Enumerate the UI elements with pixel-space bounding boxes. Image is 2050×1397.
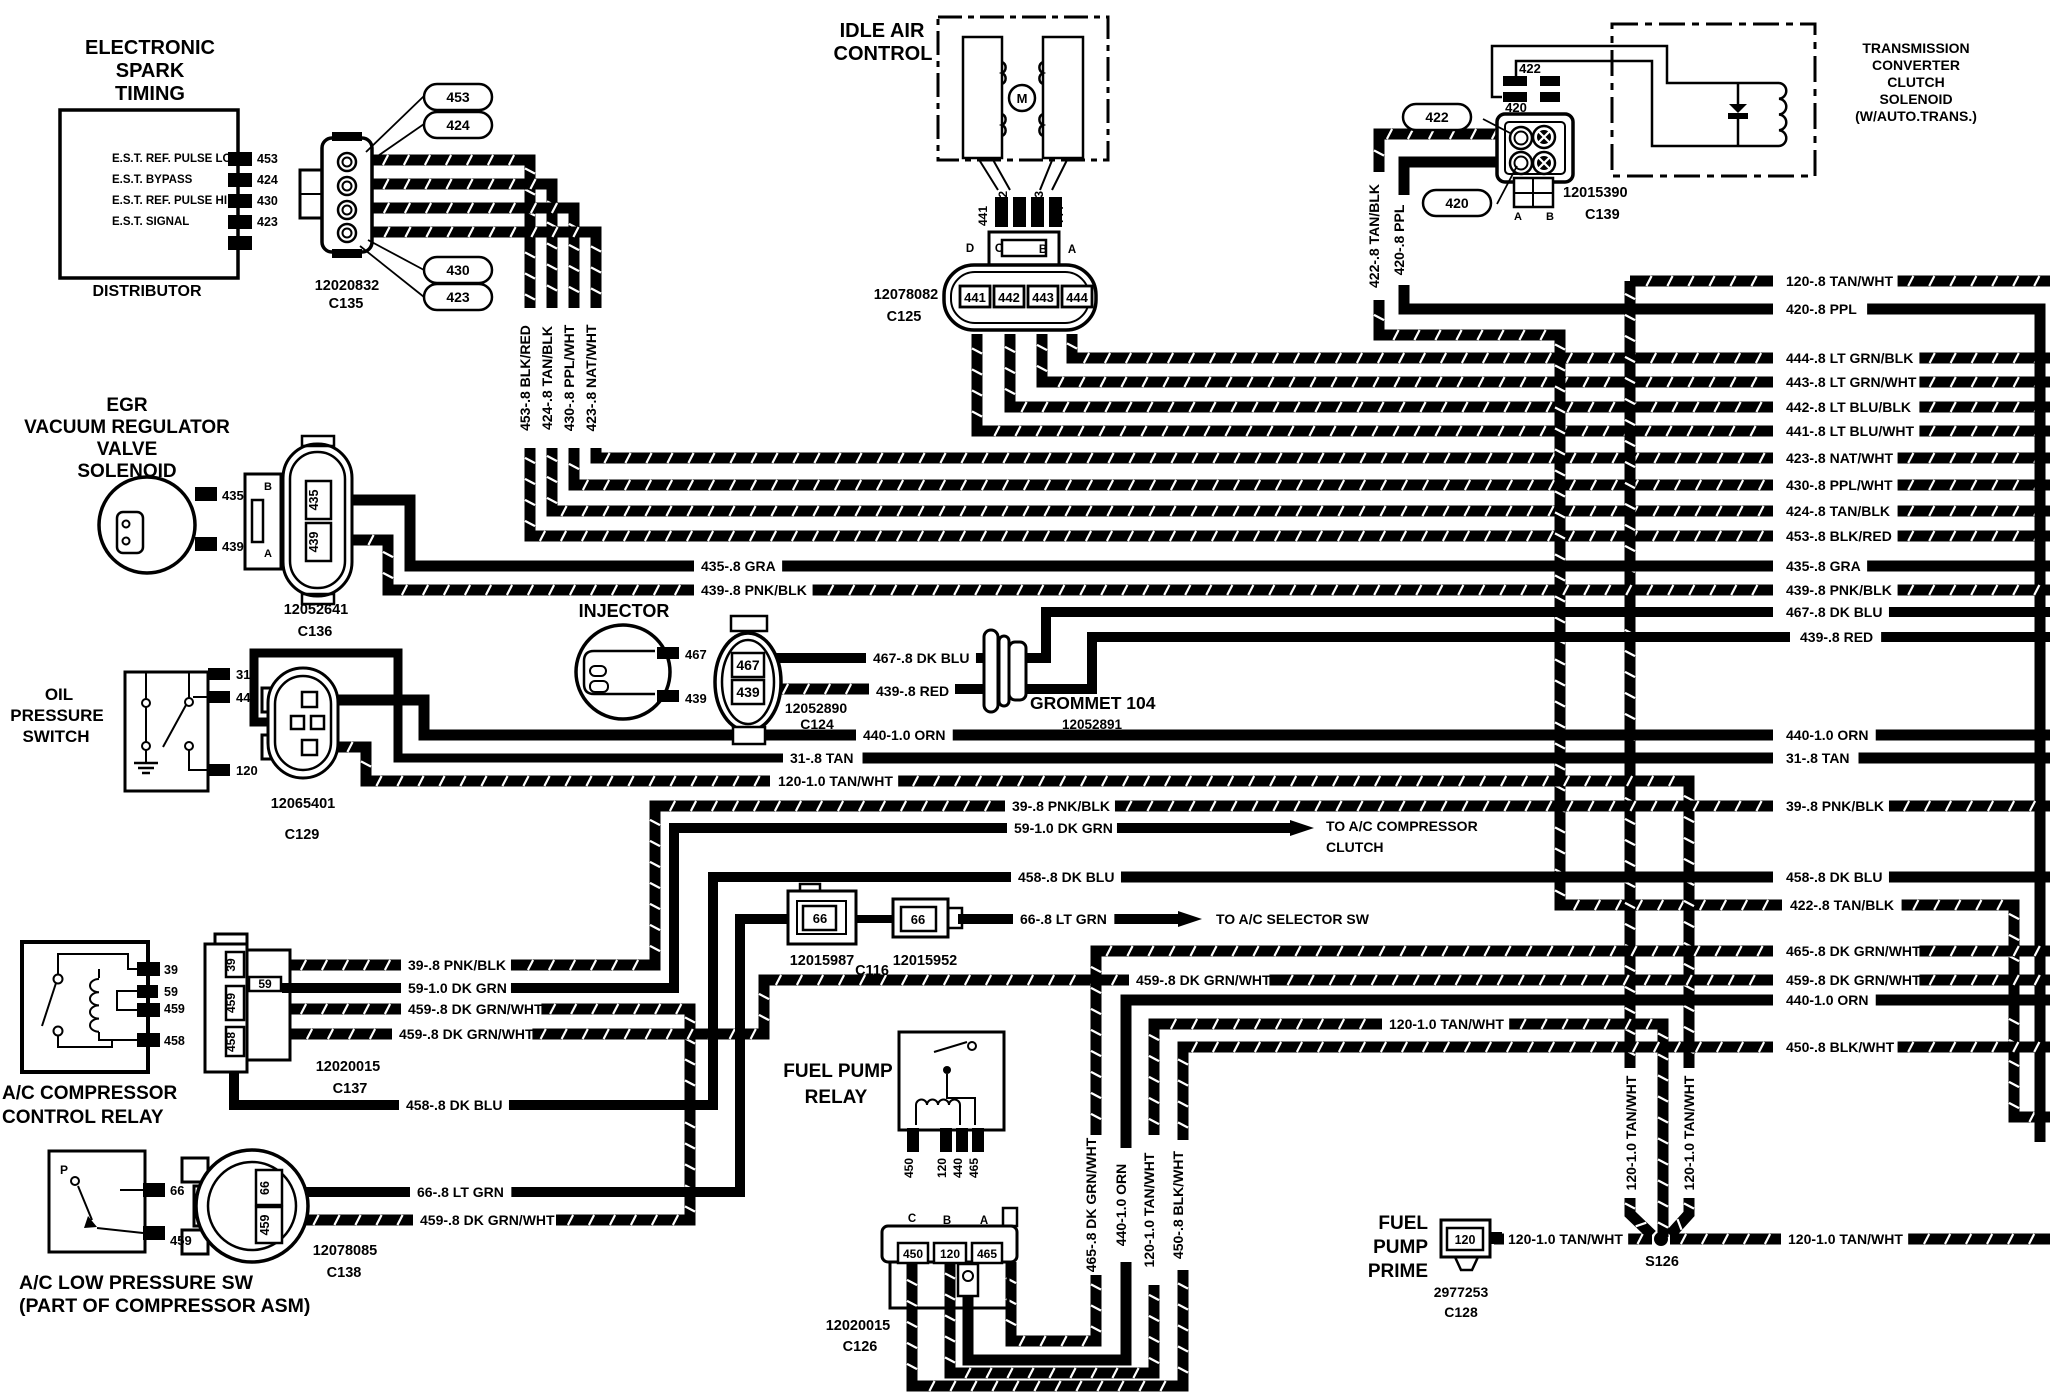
svg-text:440: 440 [236,690,258,705]
svg-text:SOLENOID: SOLENOID [1879,91,1952,107]
svg-text:CLUTCH: CLUTCH [1326,839,1384,855]
svg-text:423: 423 [257,215,278,229]
svg-text:B: B [264,481,272,493]
svg-text:453: 453 [257,152,278,166]
svg-text:39: 39 [224,958,238,972]
svg-text:12015390: 12015390 [1563,185,1628,201]
svg-text:422: 422 [1519,61,1541,76]
svg-text:439: 439 [222,539,244,554]
svg-text:423-.8 NAT/WHT: 423-.8 NAT/WHT [1786,450,1894,466]
svg-text:444: 444 [1066,290,1088,305]
svg-text:465: 465 [977,1247,997,1261]
svg-text:66: 66 [170,1183,184,1198]
svg-text:CLUTCH: CLUTCH [1887,74,1945,90]
svg-text:IDLE AIR: IDLE AIR [840,20,925,42]
svg-text:C124: C124 [800,716,834,732]
svg-text:FUEL: FUEL [1378,1213,1428,1234]
svg-text:12020832: 12020832 [315,278,380,294]
svg-text:440-1.0 ORN: 440-1.0 ORN [863,727,945,743]
svg-text:66: 66 [258,1181,272,1195]
svg-text:424-.8 TAN/BLK: 424-.8 TAN/BLK [1786,503,1890,519]
svg-text:C: C [908,1213,916,1225]
svg-text:TIMING: TIMING [115,83,185,105]
svg-text:RELAY: RELAY [805,1087,868,1108]
svg-text:12052890: 12052890 [785,700,848,716]
svg-text:A/C LOW PRESSURE SW: A/C LOW PRESSURE SW [19,1272,254,1294]
svg-text:120-.8 TAN/WHT: 120-.8 TAN/WHT [1786,273,1894,289]
svg-text:(PART OF COMPRESSOR ASM): (PART OF COMPRESSOR ASM) [19,1295,310,1317]
svg-text:C126: C126 [843,1339,878,1355]
svg-text:B: B [943,1215,951,1227]
svg-text:450: 450 [903,1247,923,1261]
svg-text:C138: C138 [327,1265,362,1281]
svg-text:PRIME: PRIME [1368,1261,1428,1282]
svg-text:12052891: 12052891 [1062,717,1123,732]
svg-text:120-1.0 TAN/WHT: 120-1.0 TAN/WHT [1788,1231,1903,1247]
svg-text:467-.8 DK BLU: 467-.8 DK BLU [1786,604,1882,620]
svg-text:39-.8 PNK/BLK: 39-.8 PNK/BLK [408,957,506,973]
svg-text:459-.8 DK GRN/WHT: 459-.8 DK GRN/WHT [420,1212,555,1228]
svg-text:A/C COMPRESSOR: A/C COMPRESSOR [2,1083,178,1104]
svg-text:B: B [1546,211,1554,223]
svg-text:420: 420 [1445,195,1469,211]
svg-text:OIL: OIL [45,685,73,704]
svg-text:443-.8 LT GRN/WHT: 443-.8 LT GRN/WHT [1786,374,1917,390]
svg-text:39-.8 PNK/BLK: 39-.8 PNK/BLK [1012,798,1110,814]
svg-text:458: 458 [224,1032,238,1052]
svg-text:459-.8 DK GRN/WHT: 459-.8 DK GRN/WHT [1136,972,1271,988]
svg-text:458: 458 [164,1034,185,1048]
svg-text:120-1.0 TAN/WHT: 120-1.0 TAN/WHT [1141,1152,1157,1267]
svg-text:450-.8 BLK/WHT: 450-.8 BLK/WHT [1786,1039,1895,1055]
svg-text:441-.8 LT BLU/WHT: 441-.8 LT BLU/WHT [1786,423,1915,439]
svg-text:459-.8 DK GRN/WHT: 459-.8 DK GRN/WHT [1786,972,1921,988]
svg-text:C136: C136 [298,624,333,640]
svg-text:450: 450 [902,1158,916,1178]
svg-text:120: 120 [236,763,258,778]
svg-text:PUMP: PUMP [1373,1237,1428,1258]
svg-text:465: 465 [967,1158,981,1178]
svg-text:A: A [1514,211,1522,223]
svg-text:443: 443 [1032,290,1054,305]
svg-text:453-.8 BLK/RED: 453-.8 BLK/RED [517,325,533,431]
svg-text:422-.8 TAN/BLK: 422-.8 TAN/BLK [1790,897,1894,913]
svg-text:D: D [966,243,974,255]
svg-text:453-.8 BLK/RED: 453-.8 BLK/RED [1786,528,1892,544]
svg-text:444: 444 [1052,206,1066,226]
svg-text:A: A [264,548,272,560]
svg-text:439: 439 [685,691,707,706]
svg-text:441: 441 [976,206,990,226]
svg-text:12015987: 12015987 [790,953,855,969]
svg-text:EGR: EGR [106,395,147,416]
svg-text:120-1.0 TAN/WHT: 120-1.0 TAN/WHT [1623,1075,1639,1190]
svg-text:31-.8 TAN: 31-.8 TAN [790,750,854,766]
svg-text:31: 31 [236,667,250,682]
svg-text:39-.8 PNK/BLK: 39-.8 PNK/BLK [1786,798,1884,814]
svg-text:DISTRIBUTOR: DISTRIBUTOR [92,283,201,300]
svg-text:439-.8 RED: 439-.8 RED [1800,629,1873,645]
svg-text:439-.8 PNK/BLK: 439-.8 PNK/BLK [1786,582,1892,598]
svg-text:66: 66 [911,912,925,927]
svg-text:120-1.0 TAN/WHT: 120-1.0 TAN/WHT [1508,1231,1623,1247]
svg-text:(W/AUTO.TRANS.): (W/AUTO.TRANS.) [1855,108,1977,124]
svg-text:442: 442 [998,290,1020,305]
svg-text:459-.8 DK GRN/WHT: 459-.8 DK GRN/WHT [399,1026,534,1042]
svg-text:120: 120 [1455,1233,1476,1247]
svg-text:120: 120 [940,1247,960,1261]
svg-text:424: 424 [446,117,470,133]
svg-text:430-.8 PPL/WHT: 430-.8 PPL/WHT [561,324,577,431]
svg-text:442-.8 LT BLU/BLK: 442-.8 LT BLU/BLK [1786,399,1911,415]
svg-text:12065401: 12065401 [271,796,336,812]
svg-text:459: 459 [258,1215,272,1236]
svg-text:12078082: 12078082 [874,287,939,303]
svg-text:A: A [1068,244,1076,256]
svg-text:E.S.T. BYPASS: E.S.T. BYPASS [112,174,193,186]
svg-text:66: 66 [813,911,827,926]
svg-text:441: 441 [964,290,986,305]
svg-text:459: 459 [224,993,238,1013]
svg-text:435-.8 GRA: 435-.8 GRA [1786,558,1861,574]
svg-text:424-.8 TAN/BLK: 424-.8 TAN/BLK [539,326,555,430]
svg-text:C125: C125 [887,309,922,325]
svg-text:SWITCH: SWITCH [22,727,89,746]
svg-text:E.S.T. REF. PULSE HI: E.S.T. REF. PULSE HI [112,195,227,207]
svg-text:M: M [1017,91,1028,106]
svg-text:439: 439 [307,532,321,553]
svg-text:59-1.0 DK GRN: 59-1.0 DK GRN [408,980,507,996]
svg-text:458-.8 DK BLU: 458-.8 DK BLU [1018,869,1114,885]
svg-text:435: 435 [307,490,321,511]
svg-text:CONVERTER: CONVERTER [1872,57,1960,73]
svg-text:C: C [995,243,1003,255]
svg-text:PRESSURE: PRESSURE [10,706,104,725]
svg-text:467: 467 [736,657,760,673]
svg-text:C135: C135 [329,296,364,312]
svg-text:450-.8 BLK/WHT: 450-.8 BLK/WHT [1170,1150,1186,1259]
svg-text:444-.8 LT GRN/BLK: 444-.8 LT GRN/BLK [1786,350,1913,366]
svg-text:443: 443 [1032,191,1046,211]
svg-text:430-.8 PPL/WHT: 430-.8 PPL/WHT [1786,477,1893,493]
svg-text:465-.8 DK GRN/WHT: 465-.8 DK GRN/WHT [1786,943,1921,959]
svg-text:12020015: 12020015 [826,1318,891,1334]
svg-text:TO A/C SELECTOR SW: TO A/C SELECTOR SW [1216,911,1370,927]
svg-text:423: 423 [446,289,470,305]
svg-text:59-1.0 DK GRN: 59-1.0 DK GRN [1014,820,1113,836]
svg-text:B: B [1039,244,1047,256]
svg-text:12078085: 12078085 [313,1243,378,1259]
svg-text:420-.8 PPL: 420-.8 PPL [1786,301,1857,317]
svg-text:120-1.0 TAN/WHT: 120-1.0 TAN/WHT [778,773,893,789]
svg-text:420-.8 PPL: 420-.8 PPL [1391,204,1407,275]
svg-text:440-1.0 ORN: 440-1.0 ORN [1113,1164,1129,1246]
svg-text:CONTROL RELAY: CONTROL RELAY [2,1107,164,1128]
svg-text:422-.8 TAN/BLK: 422-.8 TAN/BLK [1366,184,1382,288]
svg-text:430: 430 [257,194,278,208]
svg-text:465-.8 DK GRN/WHT: 465-.8 DK GRN/WHT [1083,1137,1099,1272]
svg-text:C139: C139 [1585,207,1620,223]
svg-text:39: 39 [164,963,178,977]
svg-text:C129: C129 [285,827,320,843]
svg-text:12052641: 12052641 [284,602,349,618]
svg-text:453: 453 [446,89,470,105]
svg-text:423-.8 NAT/WHT: 423-.8 NAT/WHT [583,324,599,432]
svg-text:12015952: 12015952 [893,953,958,969]
svg-text:120: 120 [935,1158,949,1178]
svg-text:GROMMET 104: GROMMET 104 [1030,693,1156,713]
svg-text:422: 422 [1425,109,1449,125]
svg-text:ELECTRONIC: ELECTRONIC [85,37,215,59]
svg-text:458-.8 DK BLU: 458-.8 DK BLU [1786,869,1882,885]
svg-text:66-.8 LT GRN: 66-.8 LT GRN [1020,911,1107,927]
svg-text:INJECTOR: INJECTOR [579,601,670,621]
svg-text:440: 440 [951,1158,965,1178]
svg-text:CONTROL: CONTROL [834,43,933,65]
svg-text:439-.8 PNK/BLK: 439-.8 PNK/BLK [701,582,807,598]
svg-text:C137: C137 [333,1081,368,1097]
svg-text:442: 442 [996,191,1010,211]
svg-text:VALVE: VALVE [97,439,158,460]
svg-text:66-.8 LT GRN: 66-.8 LT GRN [417,1184,504,1200]
svg-text:C116: C116 [855,963,889,979]
svg-text:59: 59 [258,977,272,991]
svg-text:2977253: 2977253 [1434,1284,1489,1300]
svg-text:TRANSMISSION: TRANSMISSION [1862,40,1969,56]
svg-text:31-.8 TAN: 31-.8 TAN [1786,750,1850,766]
svg-text:12020015: 12020015 [316,1059,381,1075]
svg-text:VACUUM REGULATOR: VACUUM REGULATOR [24,417,230,438]
svg-text:424: 424 [257,173,278,187]
svg-text:P: P [60,1163,68,1177]
svg-text:439-.8 RED: 439-.8 RED [876,683,949,699]
svg-text:435: 435 [222,488,244,503]
svg-text:430: 430 [446,262,470,278]
svg-text:435-.8 GRA: 435-.8 GRA [701,558,776,574]
svg-text:SPARK: SPARK [116,60,185,82]
svg-text:459-.8 DK GRN/WHT: 459-.8 DK GRN/WHT [408,1001,543,1017]
svg-text:FUEL PUMP: FUEL PUMP [783,1061,893,1082]
svg-text:A: A [980,1215,988,1227]
svg-text:59: 59 [164,985,178,999]
svg-text:458-.8 DK BLU: 458-.8 DK BLU [406,1097,502,1113]
svg-text:120-1.0 TAN/WHT: 120-1.0 TAN/WHT [1681,1075,1697,1190]
svg-text:440-1.0 ORN: 440-1.0 ORN [1786,992,1868,1008]
svg-text:E.S.T. SIGNAL: E.S.T. SIGNAL [112,216,189,228]
svg-text:TO A/C COMPRESSOR: TO A/C COMPRESSOR [1326,818,1478,834]
svg-text:439: 439 [736,684,760,700]
svg-text:C128: C128 [1444,1304,1478,1320]
svg-text:E.S.T. REF. PULSE LO: E.S.T. REF. PULSE LO [112,153,232,165]
svg-text:467: 467 [685,647,707,662]
svg-text:440-1.0 ORN: 440-1.0 ORN [1786,727,1868,743]
svg-text:120-1.0 TAN/WHT: 120-1.0 TAN/WHT [1389,1016,1504,1032]
svg-text:467-.8 DK BLU: 467-.8 DK BLU [873,650,969,666]
svg-text:S126: S126 [1645,1254,1679,1270]
svg-text:459: 459 [164,1002,185,1016]
